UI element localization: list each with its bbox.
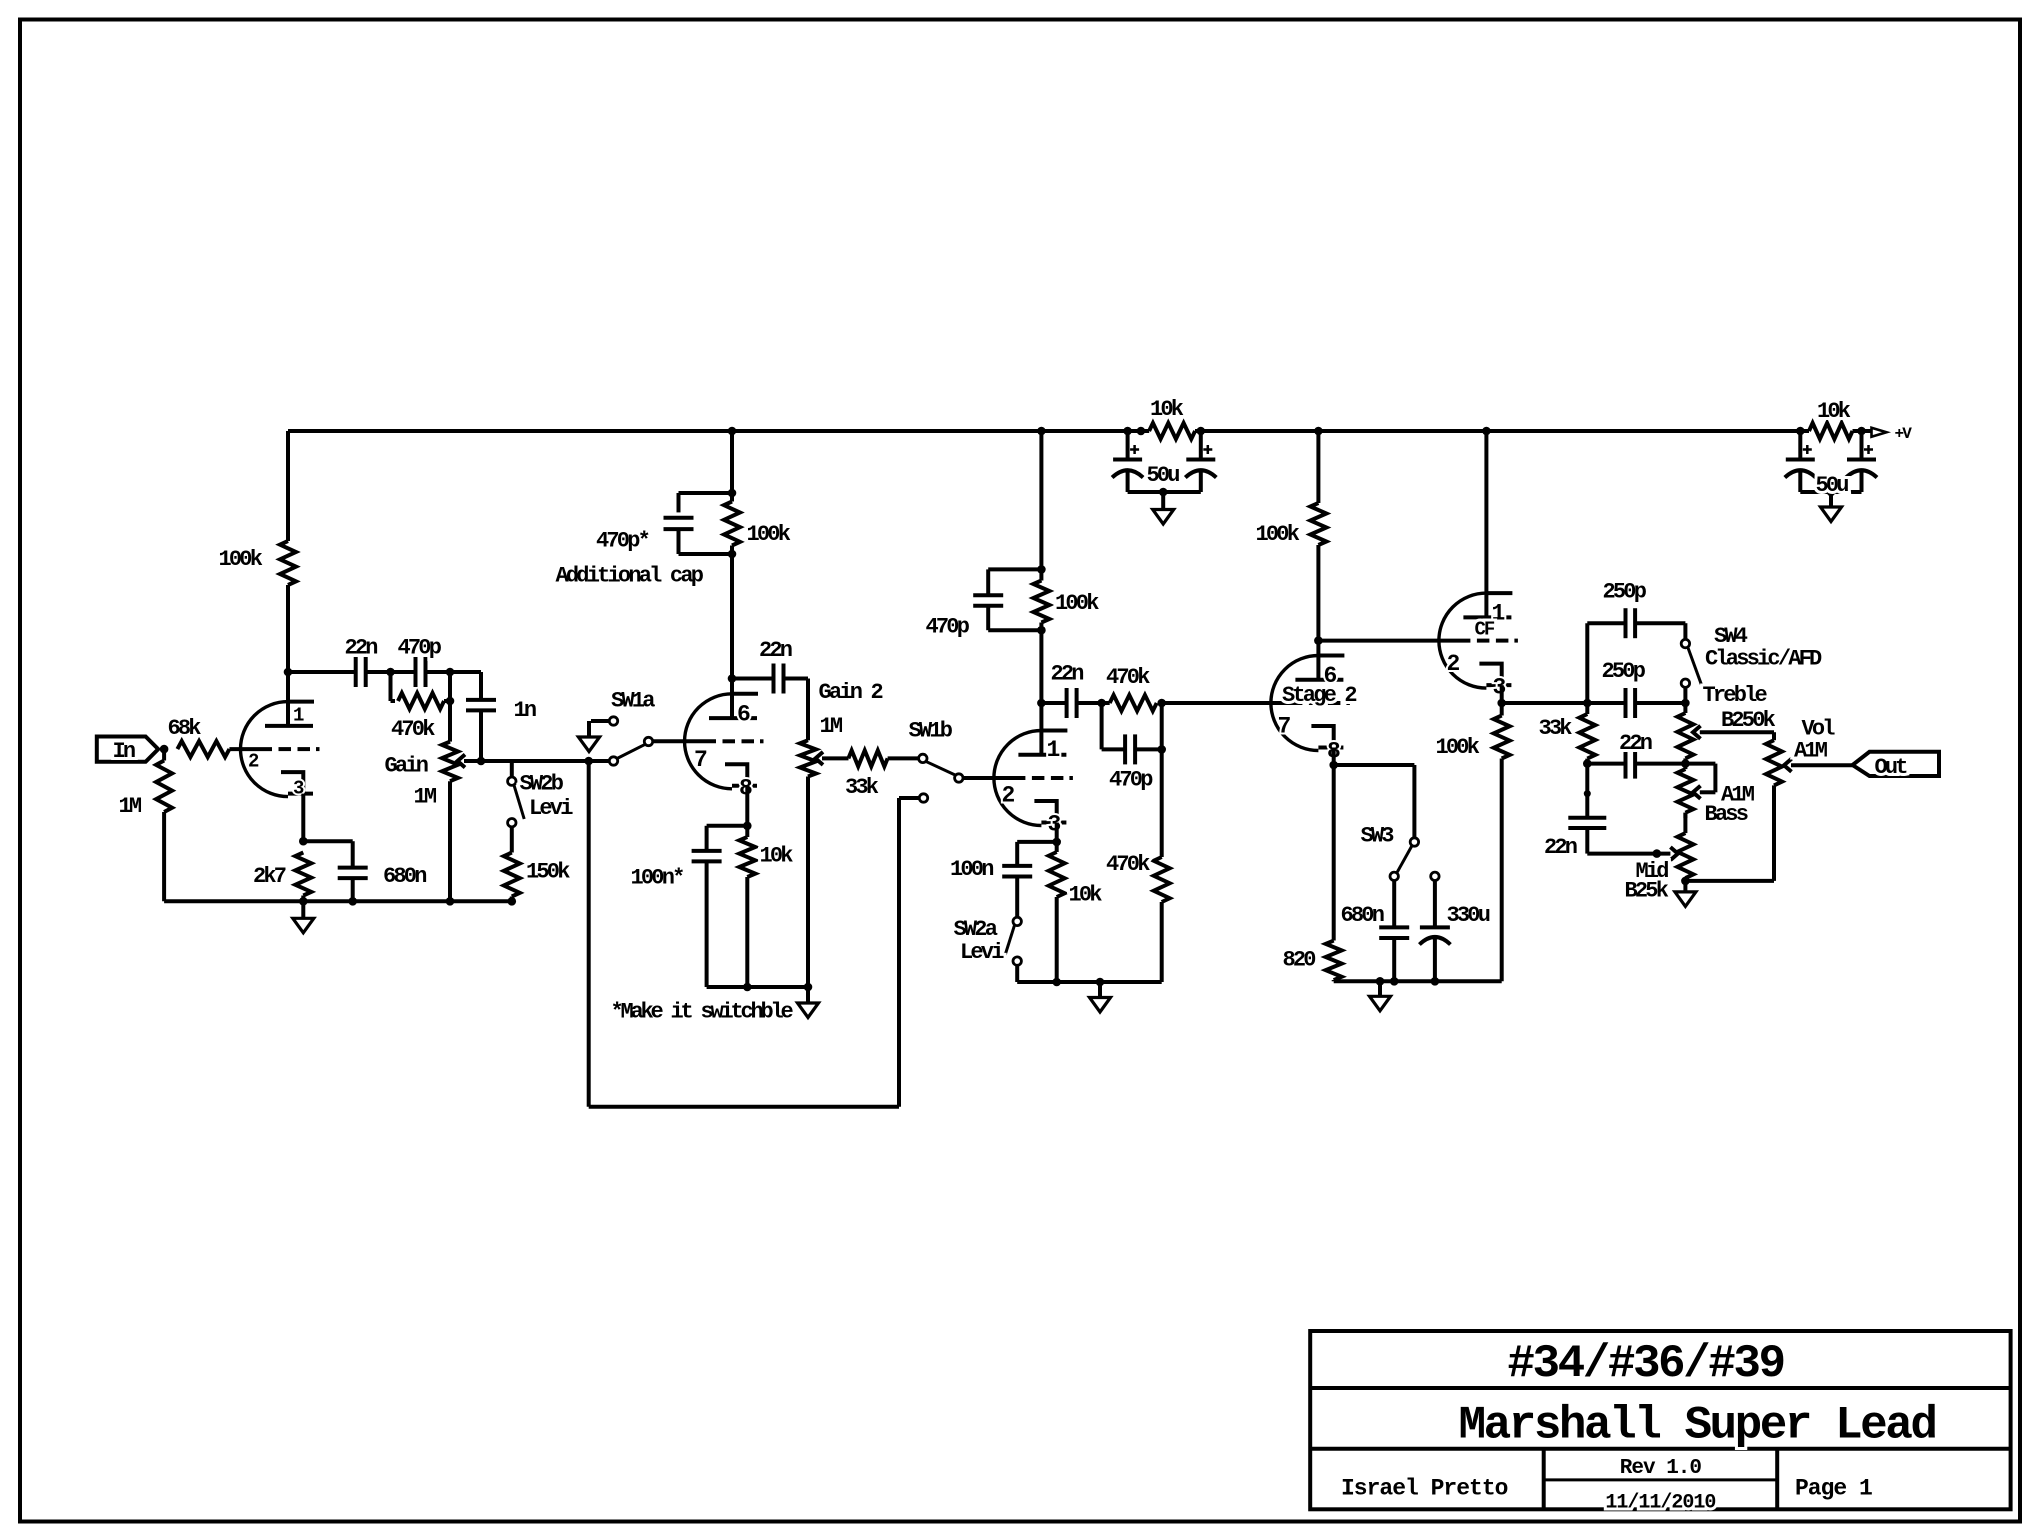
capacitor 50u (left of right dropper) [1798,431,1802,460]
node bus-50u-left-A [1123,427,1132,436]
svg-text:100k: 100k [219,547,263,572]
svg-text:470k: 470k [1106,852,1150,877]
node gain2 rail [804,983,813,992]
resistor 10k V3 cathode [1055,842,1059,852]
wire 250p top left [1587,621,1625,625]
node gnd rail V4 [1376,977,1385,986]
wire V2 plate to tube [730,546,734,719]
capacitor 22n tone lower [1585,764,1589,818]
node gain rail [446,897,455,906]
svg-text:Stage 2: Stage 2 [1282,683,1356,708]
svg-text:Levi: Levi [529,796,573,821]
tube V5 cathode follower [1439,593,1487,688]
wire V1 plate riser [286,431,290,541]
wire 50u pair bottom (middle) [1128,490,1201,494]
svg-text:2: 2 [248,751,259,773]
capacitor 50u (right of right dropper) [1860,431,1864,460]
resistor 150k SW2b [510,827,514,853]
resistor 470k series [1110,695,1157,711]
resistor 820 V4 cathode [1332,765,1336,941]
node V1 cathode [299,837,308,846]
wire 22n to node [366,670,391,674]
switch SW2b [510,761,514,777]
switch SW3 [1412,765,1416,838]
svg-text:150k: 150k [526,860,570,885]
svg-text:1: 1 [1047,737,1060,763]
node 50u middle bottom [1159,488,1168,497]
svg-text:1M: 1M [820,714,843,739]
resistor 33k interstage [848,750,887,766]
node bus-10k2-left [1796,427,1805,436]
wire V4 plate to tube [1316,545,1320,680]
capacitor 100n V3 cathode [1017,840,1056,844]
wire 470k to V4 grid [1162,701,1303,705]
svg-text:B250k: B250k [1721,708,1776,733]
wire SW1b to V3 grid [963,776,1025,780]
svg-text:470p: 470p [1109,768,1153,793]
resistor 100k V3 plate [1033,581,1049,623]
svg-text:250p: 250p [1603,580,1647,605]
svg-text:6: 6 [737,702,750,728]
svg-text:2: 2 [1002,783,1015,809]
potentiometer Gain 1M [448,701,452,742]
capacitor 100n* V2 cathode [707,824,748,828]
node 1n-wiper [477,757,486,766]
node 50u right bottom [1827,488,1836,497]
wire V2 plate to 22n [732,677,774,681]
wire gain wiper to SW1a [464,759,609,763]
capacitor 50u (left of middle dropper) [1126,431,1130,460]
node V2 cathode [743,822,752,831]
resistor 100k V1 plate [280,541,296,585]
wire V2 cathode lead [745,786,749,826]
resistor 10k (middle dropper) [1149,423,1195,439]
svg-text:B25k: B25k [1625,879,1669,904]
resistor 470k V3 load [1160,703,1164,857]
svg-text:Page 1: Page 1 [1795,1476,1872,1502]
svg-text:SW1b: SW1b [909,719,953,744]
node tone F [1681,877,1690,886]
node bus-50u-right-A [1197,427,1206,436]
tube V3 triode [994,731,1042,826]
svg-text:68k: 68k [168,716,202,741]
wire treble wiper to vol [1700,730,1774,734]
svg-text:100n*: 100n* [631,866,684,891]
wire vol bottom [1685,879,1774,883]
svg-text:2: 2 [1447,651,1460,677]
node 470p-470k right [1157,745,1166,754]
capacitor 680n cathode bypass V1 [303,839,352,843]
svg-text:1M: 1M [119,794,142,819]
svg-text:Gain: Gain [385,754,428,779]
connector Out [1853,752,1940,776]
wire V4 plate to V5 grid [1318,639,1470,643]
svg-text:100k: 100k [1436,735,1480,760]
wire bypass loop [587,761,591,1107]
node tone B [1681,699,1690,708]
svg-text:33k: 33k [1539,716,1573,741]
ground tone stack [1683,881,1687,892]
svg-text:22n: 22n [345,636,378,661]
svg-text:SW3: SW3 [1361,824,1395,849]
connector In [97,737,158,762]
wire 50u pair bottom (right) [1800,490,1861,494]
svg-text:Israel Pretto: Israel Pretto [1341,1476,1508,1502]
capacitor 250p treble [1624,688,1628,718]
capacitor 22n stage2 coupling [772,664,776,694]
svg-text:50u: 50u [1147,463,1180,488]
svg-text:2k7: 2k7 [253,864,286,889]
svg-text:10k: 10k [1069,883,1103,908]
svg-text:470k: 470k [391,717,435,742]
node V3 cathode [1052,838,1061,847]
svg-text:Bass: Bass [1705,802,1748,827]
ground below right 50u pair [1829,492,1833,507]
wire V3 cathode rail [1017,980,1161,984]
node 2k7 rail [299,897,308,906]
node V3 plate top [1037,565,1046,574]
wire V2 plate riser [730,431,734,502]
resistor 68k grid stopper [177,741,229,757]
svg-text:Marshall Super Lead: Marshall Super Lead [1459,1400,1936,1452]
title block frame [1310,1331,2010,1509]
gain pot wiper arrow [458,755,466,768]
wire 68k to V1 grid [229,747,272,751]
wire V4 cathode rail [1334,979,1502,983]
svg-text:33k: 33k [845,775,879,800]
wire 22n to Gain2 [784,677,809,681]
node V2 plate signal [728,674,737,683]
resistor 2k7 cathode V1 [301,794,305,842]
node wiper-loop [584,757,593,766]
svg-text:50u: 50u [1816,473,1849,498]
svg-text:7: 7 [1278,714,1291,740]
svg-text:Out: Out [1875,755,1908,780]
ground stage1 [301,901,305,918]
wire 33k to SW1b [888,756,919,760]
bass wiper tie [1685,762,1715,766]
wire V1 plate to tube [286,585,290,726]
ground SW1a [578,737,599,752]
potentiometer Gain 2 1M [806,679,810,741]
gain2 wiper arrow [816,752,824,765]
svg-text:11/11/2010: 11/11/2010 [1605,1492,1715,1515]
wire 22n tone leads [1587,762,1625,766]
svg-text:470p: 470p [926,615,970,640]
+V output arrow [1872,428,1887,437]
tube V2 triode [685,694,732,789]
svg-text:*Make it switchble: *Make it switchble [611,1000,794,1025]
svg-text:22n: 22n [1051,662,1084,687]
node bus-50u-left-B [1137,427,1146,436]
wire tone A riser [1585,623,1589,703]
node 470k-470p junction [446,697,455,706]
node V4 plate signal [1314,636,1323,645]
svg-text:Classic/AFD: Classic/AFD [1705,647,1822,672]
node 150k rail [508,897,517,906]
vol wiper arrow [1784,759,1792,772]
node 680n rail [348,897,357,906]
svg-text:22n: 22n [1544,835,1577,860]
svg-text:10k: 10k [1817,399,1851,424]
wire V3 plate to 22n [1041,701,1066,705]
node 22n lower mid [1584,790,1591,797]
capacitor 50u (right of middle dropper) [1199,431,1203,460]
capacitor 470p V3 parallel [988,567,1041,571]
tube V1 triode [241,702,289,797]
potentiometer Mid B25k [1683,813,1687,833]
wire 22n to 470k [1077,701,1110,705]
svg-text:680n: 680n [1341,903,1384,928]
svg-text:22n: 22n [759,638,792,663]
svg-text:7: 7 [694,747,707,773]
ground V4 cathode [1378,981,1382,996]
wire V5 plate riser [1484,431,1488,617]
node input [160,745,169,754]
wire 1n to wiper line [479,710,483,761]
capacitor 250p bypass [1624,608,1628,638]
node V3 plate bottom [1037,626,1046,635]
wire plate node to 22n [288,670,356,674]
capacitor 470p* V2 parallel [679,491,733,495]
wire 250p top right [1635,621,1685,625]
wire V3 cathode lead [1055,823,1059,842]
resistor 1M input load [162,749,166,760]
resistor 100k V4 plate [1310,503,1326,545]
svg-text:Treble: Treble [1703,683,1768,708]
node 22n-470k [1097,699,1106,708]
wire V5 cathode to tone stack [1502,701,1588,705]
wire V4 plate riser [1316,431,1320,503]
node V2 plate bottom [728,550,737,559]
node 330u rail [1431,977,1440,986]
wire 22n lower to mid wiper [1587,852,1670,856]
node gnd rail V3 [1096,978,1105,987]
node bus-V4 [1314,427,1323,436]
treble wiper arrow [1693,726,1701,739]
wire +V supply bus [288,429,1149,433]
node 10k rail V2 [743,983,752,992]
node tone D [1681,759,1690,768]
node V3 plate signal [1037,699,1046,708]
node bus-V3 [1037,427,1046,436]
node 680n rail [1390,977,1399,986]
wire stage1 ground rail [164,899,512,903]
potentiometer Bass A1M [1683,764,1687,770]
capacitor 330u V4 cathode [1433,881,1437,928]
node V4 cathode [1329,761,1338,770]
node mid wiper wire [1653,849,1662,858]
capacitor 22n tone upper [1624,749,1628,779]
switch SW4 [1681,639,1689,647]
node tone C [1583,759,1592,768]
wire V5 cathode lead [1500,685,1504,703]
svg-text:10k: 10k [760,844,794,869]
capacitor 22n stage3 coupling [1065,688,1069,718]
node 470k out [1157,699,1166,708]
resistor 10k V2 cathode [745,826,749,837]
node V2 plate top [728,489,737,498]
svg-text:#34/#36/#39: #34/#36/#39 [1507,1338,1783,1390]
svg-text:Additional cap: Additional cap [556,564,704,589]
potentiometer Treble B250k [1683,703,1687,713]
wire vol wiper to Out [1791,763,1853,767]
node after 470p stage1 [446,668,455,677]
switch SW1b [919,754,927,762]
wire 470p leads [391,670,416,674]
svg-text:470p*: 470p* [596,529,649,554]
wire V3 plate to tube [1039,623,1043,755]
node V5 cathode [1497,699,1506,708]
wire V4 cathode lead [1332,748,1336,766]
wire SW1a to ground [591,719,609,723]
svg-text:SW2a: SW2a [954,917,998,942]
svg-text:22n: 22n [1619,731,1652,756]
svg-text:Levi: Levi [960,940,1004,965]
wire gain2 wiper to 33k [822,756,849,760]
svg-text:In: In [113,739,135,764]
node bus-10k2-right [1857,427,1866,436]
svg-text:SW1a: SW1a [611,689,655,714]
svg-text:1: 1 [293,705,304,727]
node bus-V2 [728,427,737,436]
svg-text:+V: +V [1895,425,1913,443]
wire V3 plate riser [1039,431,1043,581]
svg-text:820: 820 [1283,948,1316,973]
svg-text:1: 1 [1492,601,1505,627]
node after 22n stage1 [386,668,395,677]
wire cathode to SW3 [1334,763,1415,767]
tube V4 triode [1271,656,1319,751]
capacitor 22n stage1 coupling [354,657,358,687]
capacitor 470p parallel 470k [1100,703,1104,749]
svg-text:1n: 1n [514,698,536,723]
mid wiper arrow [1670,847,1678,860]
svg-text:100n: 100n [950,857,993,882]
wire SW1a to V2 grid [653,739,716,743]
resistor 100k V5 cathode [1500,703,1504,716]
svg-text:1M: 1M [414,785,437,810]
ground V3 cathode [1098,982,1102,998]
wire V2 cathode rail [707,985,808,989]
svg-text:Rev 1.0: Rev 1.0 [1620,1457,1702,1480]
svg-text:250p: 250p [1602,659,1646,684]
svg-text:Gain 2: Gain 2 [819,680,883,705]
wire 250p treble leads [1587,701,1625,705]
capacitor 680n V4 cathode [1392,881,1396,928]
svg-text:330u: 330u [1447,903,1490,928]
node bus-V5 [1482,427,1491,436]
switch SW1a [609,757,617,765]
node V1 plate [284,668,293,677]
wire node to 1n corner [450,670,481,674]
node tone A [1583,699,1592,708]
svg-text:10k: 10k [1150,397,1184,422]
svg-text:100k: 100k [747,522,791,547]
potentiometer Vol A1M [1772,732,1776,740]
node 10k rail V3 [1052,978,1061,987]
ground below middle 50u pair [1161,492,1165,510]
ground V2 cathode [806,987,810,1003]
svg-text:100k: 100k [1256,522,1300,547]
switch SW2a [1013,917,1021,925]
resistor 100k V2 plate [724,502,740,546]
svg-text:SW4: SW4 [1714,624,1748,649]
svg-text:680n: 680n [383,864,426,889]
svg-text:470p: 470p [398,636,442,661]
capacitor 470p stage1 bright [414,657,418,687]
svg-text:100k: 100k [1055,591,1099,616]
resistor 10k (right dropper) [1809,423,1853,439]
bass wiper arrow [1693,786,1701,799]
resistor 470k stage1 parallel [389,672,393,701]
capacitor 1n treble peaker [479,672,483,700]
resistor 33k tone [1585,703,1589,714]
svg-text:470k: 470k [1106,665,1150,690]
svg-text:A1M: A1M [1794,739,1828,764]
svg-text:CF: CF [1475,619,1495,641]
svg-text:SW2b: SW2b [520,772,564,797]
